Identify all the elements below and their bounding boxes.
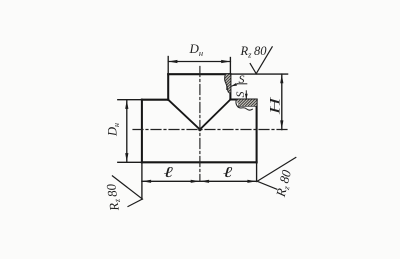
svg-text:Rz 80: Rz 80	[240, 44, 268, 59]
l + l dimension line (bottom)	[142, 180, 257, 182]
left extension line top	[118, 99, 142, 101]
branch pipe top edge	[168, 73, 230, 75]
Dн dimension line (top)	[168, 61, 230, 63]
S leader (run wall) vertical shelf + arrow	[245, 91, 247, 100]
run wall wavy break line	[236, 100, 252, 111]
extension line above branch right corner	[229, 58, 231, 75]
svg-text:ℓ: ℓ	[164, 164, 173, 180]
svg-text:H: H	[267, 96, 283, 115]
branch pipe left edge	[167, 74, 169, 100]
apex junction dot	[198, 128, 201, 131]
top edge extension line to the right	[230, 73, 287, 75]
roughness check mark top right	[250, 47, 272, 74]
cone left line	[168, 100, 200, 130]
run wall inner line	[239, 105, 257, 107]
branch wall hatched local section	[225, 74, 231, 93]
roughness check mark bottom right	[257, 157, 296, 189]
horizontal centerline (run axis)	[133, 129, 289, 131]
run wall hatched local section	[237, 100, 257, 107]
extension line above branch left corner	[167, 57, 169, 75]
H dimension line (right)	[281, 74, 283, 130]
body bottom edge	[142, 161, 257, 163]
S leader (branch wall) arrow + shelf	[231, 84, 237, 87]
roughness check mark bottom left	[112, 176, 142, 207]
vertical centerline	[199, 67, 201, 182]
body left edge	[141, 100, 143, 163]
body right edge extension downward	[256, 162, 258, 181]
body left edge extension downward	[141, 162, 143, 199]
body right edge	[256, 100, 258, 163]
svg-text:S: S	[233, 92, 247, 98]
svg-text:ℓ: ℓ	[223, 164, 232, 180]
left extension line bottom	[118, 161, 142, 163]
cone right line	[200, 100, 231, 130]
branch inner wall line	[226, 74, 228, 89]
branch wall wavy break line	[225, 75, 231, 94]
svg-text:S: S	[239, 72, 245, 86]
body left shoulder	[142, 99, 168, 101]
body right shoulder	[230, 98, 256, 100]
branch pipe right edge	[229, 74, 231, 99]
Dн dimension line (left)	[126, 100, 128, 163]
